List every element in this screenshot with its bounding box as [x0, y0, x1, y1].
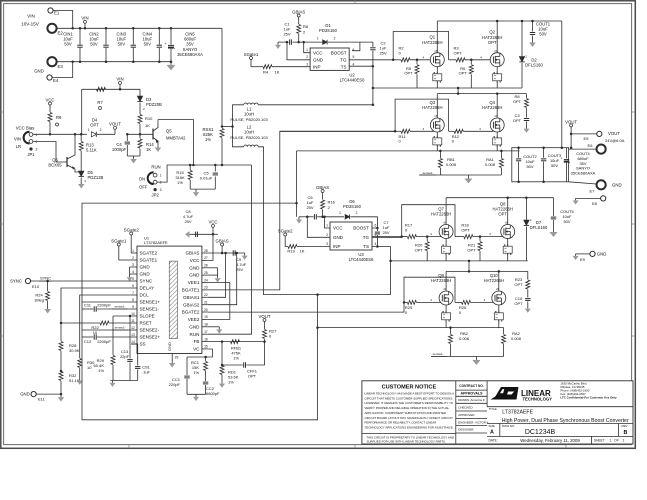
svg-text:25V: 25V: [379, 50, 386, 55]
svg-text:SGate1: SGate1: [244, 52, 259, 57]
resistor R3: [449, 59, 456, 61]
ground at C1: [277, 42, 279, 45]
terminal E5: [571, 133, 597, 135]
svg-text:VIN: VIN: [14, 137, 21, 142]
resistor R10: [138, 115, 142, 124]
ground at C8: [190, 233, 193, 235]
U1 pin 26 GND: [202, 267, 208, 269]
svg-text:1K: 1K: [275, 70, 280, 75]
resistor RB2: [450, 328, 452, 334]
svg-text:LTC4440ES6: LTC4440ES6: [340, 78, 366, 83]
wire DCL: [80, 295, 131, 358]
wire VOUT2 rail: [446, 197, 553, 199]
svg-text:3: 3: [36, 147, 38, 151]
svg-text:E6: E6: [588, 143, 594, 148]
wire Q4 drain: [496, 94, 498, 118]
svg-text:TECHNOLOGY: TECHNOLOGY: [523, 396, 553, 401]
svg-text:GND: GND: [333, 235, 344, 240]
U1 pin 8 SENSE1+: [131, 301, 137, 303]
wire source rail phase2: [318, 327, 504, 329]
wire gate feed Q3/Q4: [280, 130, 395, 132]
package Q8 source: [507, 239, 509, 261]
svg-text:OPT: OPT: [90, 123, 99, 128]
ground below RD1: [221, 381, 223, 384]
ground below D5: [80, 181, 82, 184]
svg-text:E4: E4: [53, 78, 59, 83]
ground below sense2 rail: [475, 357, 477, 361]
terminal E4: [47, 75, 52, 80]
package Q1 source: [436, 67, 438, 88]
svg-text:VOUT: VOUT: [109, 122, 121, 127]
svg-text:E3: E3: [58, 64, 64, 69]
svg-text:E1: E1: [54, 11, 60, 16]
svg-text:SS: SS: [140, 342, 146, 347]
svg-text:GND: GND: [140, 272, 151, 277]
wire Q9 drain: [445, 271, 447, 291]
wire JP1 pin2 to Q6 base: [33, 142, 67, 163]
svg-text:R8: R8: [303, 24, 309, 29]
terminal E7: [569, 182, 597, 184]
svg-text:VCC: VCC: [45, 97, 54, 102]
svg-text:16: 16: [204, 337, 208, 341]
wire VC network: [187, 349, 212, 357]
svg-text:SENSE2-: SENSE2-: [140, 328, 160, 333]
svg-text:JP2: JP2: [151, 193, 159, 198]
resistor R27: [264, 327, 266, 330]
svg-text:SGATE2: SGATE2: [140, 251, 158, 256]
svg-text:PULSE, PB2020.103: PULSE, PB2020.103: [230, 117, 268, 122]
wire Q1 drain: [436, 21, 438, 53]
capacitor COUT5: [553, 198, 555, 216]
svg-text:CIRCUIT BOARD LAYOUT MAY SIGNI: CIRCUIT BOARD LAYOUT MAY SIGNIFICANTLY A…: [365, 416, 454, 420]
svg-text:22: 22: [204, 293, 208, 297]
svg-text:6800pF: 6800pF: [206, 391, 220, 396]
svg-text:OF: OF: [614, 439, 618, 443]
svg-text:0.008: 0.008: [485, 162, 496, 167]
size cell: [499, 424, 501, 437]
svg-text:TS: TS: [341, 64, 347, 69]
svg-text:2: 2: [326, 233, 328, 237]
svg-text:1K: 1K: [145, 123, 150, 128]
wire FB network: [208, 341, 265, 343]
svg-text:6: 6: [375, 224, 377, 228]
inductor L1: [244, 103, 258, 105]
svg-text:sense2-: sense2-: [115, 326, 126, 330]
svg-text:BCX65: BCX65: [48, 163, 62, 168]
svg-text:4: 4: [132, 270, 134, 274]
terminal E8: [576, 197, 601, 199]
U1 pin 15 VC: [202, 348, 208, 350]
svg-text:OPT: OPT: [488, 40, 497, 45]
svg-text:GND: GND: [167, 342, 172, 351]
svg-text:LTC4440ES6: LTC4440ES6: [349, 257, 375, 262]
svg-text:PULSE, PB2020.103: PULSE, PB2020.103: [230, 135, 268, 140]
svg-text:GBIAS: GBIAS: [316, 185, 329, 190]
svg-text:DFLS160: DFLS160: [525, 63, 543, 68]
resistor R26: [455, 301, 462, 303]
resistor R23 opt: [527, 271, 529, 279]
svg-text:OPT: OPT: [415, 248, 424, 253]
U1 pin 22 GBIAS1: [202, 296, 208, 298]
transistor Q1: [430, 53, 444, 67]
svg-text:A: A: [490, 430, 494, 436]
resistor R6: [470, 60, 472, 65]
resistor RA2: [503, 328, 505, 334]
svg-text:VCC Bias: VCC Bias: [16, 126, 35, 131]
connector JP2: [153, 173, 157, 177]
U1 pin 27 VCC: [202, 259, 208, 261]
svg-text:SUPPLIED FOR USE WITH LINEAR T: SUPPLIED FOR USE WITH LINEAR TECHNOLOGY …: [367, 440, 446, 444]
wire VOUT rail top: [437, 20, 562, 22]
svg-text:E7: E7: [590, 189, 596, 194]
svg-text:OPT: OPT: [514, 282, 523, 287]
svg-text:APPLICATION. COMPONENT SUBSTIT: APPLICATION. COMPONENT SUBSTITUTION AND …: [365, 411, 446, 415]
svg-text:30.9K: 30.9K: [69, 348, 80, 353]
svg-text:MMBTA42: MMBTA42: [166, 136, 186, 141]
capacitor C2: [360, 42, 373, 47]
node VOUT tag output: [570, 127, 572, 134]
svg-text:19: 19: [204, 315, 208, 319]
svg-text:11: 11: [131, 319, 135, 323]
connector JP1: [29, 133, 33, 137]
svg-text:PDZ12B: PDZ12B: [88, 175, 104, 180]
resistor RSS1: [221, 28, 223, 126]
svg-text:27: 27: [204, 256, 208, 260]
wire L1 to switch node 1: [258, 104, 373, 106]
resistor R14: [139, 134, 141, 138]
svg-text:GND: GND: [140, 265, 151, 270]
capacitor CFF1: [221, 342, 223, 365]
svg-text:HAT2266H: HAT2266H: [422, 40, 442, 45]
svg-text:20: 20: [204, 308, 208, 312]
svg-text:9: 9: [132, 305, 134, 309]
svg-text:TITLE:: TITLE:: [489, 407, 498, 411]
resistor R9: [49, 110, 51, 112]
capacitor CIN1: [79, 28, 81, 44]
resistor R25: [404, 301, 407, 303]
wire sense2 gnd rail: [431, 356, 504, 358]
wire VIN branch: [82, 88, 140, 90]
svg-text:RUN: RUN: [151, 165, 160, 170]
wire VOUT bus: [561, 21, 563, 148]
svg-text:25V: 25V: [306, 205, 313, 210]
svg-text:VOUT: VOUT: [259, 314, 271, 319]
node GBIAS tag at U3: [322, 193, 324, 198]
transistor Q10: [492, 291, 506, 305]
wire DELAY: [61, 288, 131, 341]
capacitor CC1: [186, 357, 188, 375]
wire E4 to GND rail: [52, 62, 73, 78]
transistor Q6: [66, 157, 68, 167]
svg-text:PDZ20B: PDZ20B: [146, 102, 162, 107]
ground below sense rail: [467, 175, 469, 179]
capacitor COUT1: [532, 21, 534, 32]
ground below COUT5: [553, 229, 555, 232]
svg-text:+: +: [165, 42, 167, 46]
U1 pin 3 GND: [131, 266, 137, 268]
wire JP1 pin1 to D4 node: [33, 133, 87, 135]
svg-text:E10: E10: [32, 284, 40, 289]
svg-text:6: 6: [353, 48, 355, 52]
svg-text:GBIAS: GBIAS: [292, 9, 305, 14]
capacitor C5: [214, 165, 216, 172]
capacitor C9: [232, 250, 234, 255]
U1 pin 16 FB: [202, 341, 208, 343]
ground below C10: [527, 306, 529, 309]
svg-text:VCC: VCC: [208, 220, 217, 225]
svg-text:JP1: JP1: [27, 152, 35, 157]
wire D1 to BOOST: [328, 42, 360, 51]
resistor R4: [250, 64, 252, 67]
U1 pin 17 RUN: [202, 333, 208, 335]
ground below C3: [526, 126, 528, 129]
svg-text:DWG NO.: DWG NO.: [502, 424, 515, 428]
capacitor COUT3: [543, 148, 545, 158]
capacitor CIN2: [105, 28, 107, 44]
svg-text:25: 25: [204, 271, 208, 275]
wire tick to switch rail 2: [468, 261, 470, 272]
svg-text:sense1-: sense1-: [115, 305, 126, 309]
svg-text:GND: GND: [20, 392, 30, 397]
terminal E2: [47, 24, 56, 33]
inductor L2: [244, 145, 258, 147]
svg-text:TG: TG: [340, 57, 347, 62]
svg-text:GND: GND: [313, 57, 324, 62]
svg-text:C12: C12: [84, 339, 92, 344]
U1 pin 4 GND: [131, 273, 137, 275]
svg-text:DFLS160: DFLS160: [530, 225, 548, 230]
capacitor COUT2: [518, 148, 520, 158]
diode D3 zener: [139, 89, 141, 96]
svg-text:1%: 1%: [205, 137, 211, 142]
svg-text:SGATE1: SGATE1: [140, 258, 158, 263]
resistor R29: [112, 316, 114, 355]
svg-text:1: 1: [317, 37, 319, 41]
capacitor C7: [376, 227, 379, 230]
resistor R5: [416, 60, 418, 65]
svg-text:TECHNOLOGY APPLICATIONS ENGINE: TECHNOLOGY APPLICATIONS ENGINEERING FOR …: [365, 425, 454, 429]
capacitor CIN4: [158, 28, 160, 44]
svg-text:FB: FB: [194, 339, 200, 344]
wire Q7 drain: [445, 198, 447, 225]
svg-text:3: 3: [326, 242, 328, 246]
svg-text:OPT: OPT: [404, 71, 413, 76]
svg-text:CONTRACT NO.: CONTRACT NO.: [459, 384, 484, 388]
svg-text:10V-15V: 10V-15V: [21, 22, 40, 27]
capacitor C10 opt: [525, 298, 530, 300]
capacitor C13: [129, 316, 131, 359]
wire L2 to switch node 2 feed: [258, 147, 390, 295]
svg-text:VOUT: VOUT: [608, 131, 620, 136]
svg-text:SENSE2+: SENSE2+: [140, 335, 161, 340]
svg-text:sense1-: sense1-: [423, 171, 434, 175]
ground U1 pins 25 26: [208, 267, 218, 269]
svg-text:PERFORMANCE OR RELIABILITY. C: PERFORMANCE OR RELIABILITY. CONTACT LINE…: [365, 421, 437, 425]
svg-text:12: 12: [131, 326, 135, 330]
svg-text:R16: R16: [328, 199, 336, 204]
svg-text:APPROVALS: APPROVALS: [460, 392, 483, 396]
svg-text:VIN: VIN: [81, 16, 88, 21]
svg-text:DC1234B: DC1234B: [525, 429, 556, 436]
wire E1 to VIN rail: [53, 11, 73, 29]
transistor Q4: [490, 118, 504, 132]
svg-text:1%: 1%: [98, 368, 104, 373]
wire to Q1 gate: [410, 59, 434, 61]
diode D4: [91, 132, 96, 137]
ground below R30: [79, 378, 81, 381]
wire Q5 collector to RUN node: [158, 120, 193, 166]
svg-text:SGate1: SGate1: [111, 238, 127, 243]
svg-text:E5: E5: [584, 136, 590, 141]
svg-text:OPT: OPT: [461, 227, 470, 232]
svg-text:GND: GND: [612, 183, 622, 188]
svg-text:R19: R19: [287, 249, 295, 254]
wire BGATE1: [208, 131, 395, 290]
svg-text:E9: E9: [580, 257, 586, 262]
IC U2 LTC4440: [310, 48, 349, 70]
svg-text:R4: R4: [263, 70, 269, 75]
svg-text:SYNC: SYNC: [40, 276, 51, 281]
svg-text:10: 10: [131, 312, 135, 316]
U1 pin 14 SS: [131, 343, 137, 345]
svg-text:2200pF: 2200pF: [97, 303, 111, 308]
svg-text:1000pF: 1000pF: [112, 147, 127, 152]
svg-text:1: 1: [326, 224, 328, 228]
ground below R24: [47, 306, 49, 309]
svg-text:VCC: VCC: [190, 258, 200, 263]
node GBIAS tag at U1 pin28: [208, 252, 245, 254]
svg-text:sense2-: sense2-: [433, 352, 444, 356]
U1 pin 24 VEE1: [202, 282, 208, 284]
resistor R12: [449, 130, 455, 132]
wire U3 TG to gates: [372, 236, 402, 238]
wire SENSE1+: [82, 301, 131, 303]
wire sense1 gnd rail: [419, 174, 501, 176]
resistor R21: [479, 237, 481, 242]
svg-text:7: 7: [132, 291, 134, 295]
svg-text:6: 6: [132, 284, 134, 288]
svg-text:10uH: 10uH: [244, 130, 254, 135]
wire to Q7 gate: [416, 236, 442, 238]
wire VIN rail: [57, 27, 222, 29]
terminal E3: [47, 57, 56, 66]
svg-text:ON: ON: [139, 177, 145, 182]
package Q3 source: [436, 132, 438, 151]
svg-text:17: 17: [204, 330, 208, 334]
svg-text:VIN: VIN: [27, 14, 35, 19]
svg-text:+: +: [561, 156, 563, 160]
svg-text:1Meg: 1Meg: [34, 297, 44, 302]
U1 pin 7 DCL: [131, 294, 137, 296]
U1 pin 18 GND: [202, 326, 208, 328]
svg-text:B: B: [624, 430, 628, 436]
svg-text:2: 2: [132, 256, 134, 260]
svg-text:OPT: OPT: [467, 248, 476, 253]
node VCC tag: [49, 105, 51, 110]
svg-text:OPT: OPT: [459, 71, 468, 76]
svg-text:GBIAS1: GBIAS1: [183, 295, 200, 300]
svg-text:DRAWN: Antonina K: DRAWN: Antonina K: [458, 398, 484, 402]
wire switch rail 2: [391, 260, 528, 262]
svg-text:OPT: OPT: [498, 212, 507, 217]
svg-text:50V: 50V: [64, 42, 72, 47]
svg-text:25V: 25V: [283, 31, 290, 36]
wire drain rail phase1: [437, 93, 526, 95]
svg-text:50V: 50V: [144, 42, 152, 47]
U1 pin 19 VEE2: [202, 318, 208, 320]
resistor R28: [59, 342, 63, 351]
wire GBIAS2: [208, 253, 237, 305]
wire switch node rail 1: [373, 87, 522, 89]
resistor R32: [60, 370, 63, 373]
wire VEE1 VEE2: [208, 283, 230, 320]
diode D6: [345, 215, 350, 220]
svg-text:0.01uF: 0.01uF: [200, 175, 213, 180]
U1 pin 20 BGATE2: [202, 311, 208, 313]
resistor R17: [402, 236, 408, 238]
svg-text:OFF: OFF: [139, 185, 148, 190]
node SGate2 tag: [284, 236, 286, 241]
svg-text:HOWEVER, IT REMAINS THE CUSTOM: HOWEVER, IT REMAINS THE CUSTOMER'S RESPO…: [365, 401, 454, 405]
svg-text:CIRCUIT THAT MEETS CUSTOMER-SU: CIRCUIT THAT MEETS CUSTOMER-SUPPLIED SPE…: [365, 396, 454, 400]
svg-text:5: 5: [353, 55, 355, 59]
capacitor CIN3: [132, 28, 134, 44]
svg-text:GND: GND: [189, 324, 200, 329]
terminal E1: [48, 8, 53, 13]
resistor R15: [189, 165, 191, 170]
svg-text:RUN: RUN: [190, 332, 200, 337]
svg-text:TS: TS: [363, 244, 369, 249]
svg-text:OPT: OPT: [513, 118, 522, 123]
svg-text:1: 1: [160, 174, 162, 178]
wire U3 VCC: [325, 217, 331, 228]
svg-text:LINEAR TECHNOLOGY HAS MADE A B: LINEAR TECHNOLOGY HAS MADE A BEST EFFORT…: [365, 392, 454, 396]
svg-text:PD3S160: PD3S160: [343, 204, 362, 209]
svg-text:LT3782AEFE: LT3782AEFE: [502, 409, 533, 415]
svg-text:SYNC: SYNC: [10, 279, 22, 284]
svg-text:R10: R10: [145, 116, 153, 121]
ground U1 pin18: [208, 326, 219, 328]
diode D7: [525, 198, 527, 220]
capacitor C6: [299, 216, 314, 218]
svg-text:.1uF: .1uF: [142, 369, 151, 374]
svg-text:VCC: VCC: [333, 226, 343, 231]
svg-text:SIZE: SIZE: [489, 424, 495, 428]
capacitor CIN5: [170, 28, 172, 44]
svg-text:0.008: 0.008: [446, 162, 457, 167]
resistor R7: [97, 87, 106, 91]
svg-text:BGATE1: BGATE1: [182, 288, 200, 293]
svg-text:SENSE1-: SENSE1-: [140, 307, 160, 312]
ground rail below slope network: [110, 380, 137, 382]
svg-text:1%: 1%: [228, 379, 234, 384]
svg-text:APPROVED:: APPROVED:: [458, 413, 475, 417]
U1 pin 25 GND: [202, 274, 208, 276]
svg-text:220pF: 220pF: [169, 382, 181, 387]
ground below COUT1: [532, 40, 534, 43]
wire gnd loop left: [82, 203, 318, 420]
svg-text:SLOPE: SLOPE: [140, 314, 155, 319]
ground U1 pins 3 4: [130, 266, 131, 268]
svg-text:R7: R7: [97, 100, 103, 105]
svg-text:LR: LR: [16, 144, 21, 149]
resistor R19: [285, 241, 288, 247]
svg-text:REV: REV: [622, 424, 628, 428]
svg-text:BGATE2: BGATE2: [182, 310, 200, 315]
svg-text:2200pF: 2200pF: [97, 339, 111, 344]
capacitor C12: [97, 336, 131, 338]
svg-text:LTC Confidential-For Customer: LTC Confidential-For Customer Use Only: [560, 395, 617, 399]
